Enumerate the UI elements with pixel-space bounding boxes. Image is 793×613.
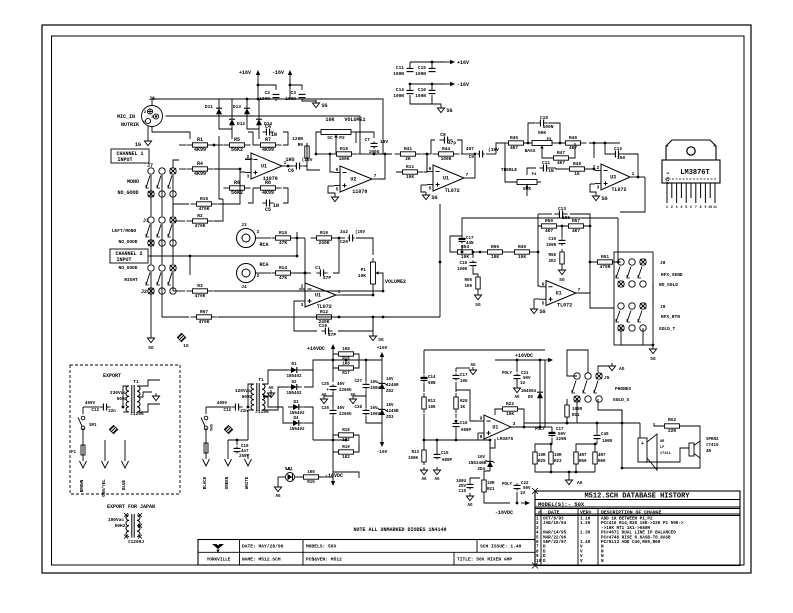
wire (329, 153, 334, 172)
svg-text:+: + (641, 441, 644, 447)
svg-text:11078: 11078 (352, 189, 367, 195)
svg-text:NUTRIK: NUTRIK (121, 122, 139, 128)
switch jack J7 (117, 163, 176, 197)
svg-text:PHONES: PHONES (615, 386, 632, 392)
svg-text:P3: P3 (547, 138, 552, 142)
fuse F1 (204, 428, 208, 456)
svg-text:C16: C16 (418, 87, 426, 93)
svg-text:TL072: TL072 (445, 188, 460, 194)
table frame DB history (535, 491, 740, 566)
wire terminal GREEN (225, 440, 232, 489)
resistor R44 100K (433, 146, 460, 162)
svg-text:C28: C28 (354, 406, 362, 410)
ground SG (328, 186, 339, 202)
wire (643, 328, 654, 346)
svg-text:D1: D1 (291, 363, 297, 367)
label -16VDC (495, 510, 513, 516)
svg-text:TITLE: 50X MIXER AMP: TITLE: 50X MIXER AMP (457, 557, 512, 563)
svg-text:SG: SG (432, 195, 438, 201)
wire (148, 126, 190, 139)
connector J3 RCA (237, 222, 269, 248)
wire (333, 360, 359, 382)
resistor R22 15K (499, 401, 522, 417)
svg-text:SG: SG (148, 345, 154, 351)
capacitor C13 1N5 (554, 206, 570, 221)
table title (584, 493, 690, 501)
svg-text:6: 6 (429, 166, 432, 172)
power +16VDC rail (495, 353, 553, 362)
ground SG (276, 99, 328, 109)
svg-text:GOLD_T: GOLD_T (659, 326, 676, 332)
svg-text:BROWN: BROWN (81, 479, 85, 492)
capacitor C6 (285, 157, 312, 174)
svg-text:TL072: TL072 (611, 187, 626, 193)
svg-text:2: 2 (257, 229, 260, 235)
svg-text:C3: C3 (291, 90, 297, 96)
wire (299, 272, 306, 289)
svg-text:C15: C15 (441, 452, 449, 456)
power +16V (239, 70, 260, 99)
wire (636, 176, 645, 179)
capacitor C1 47P (315, 265, 331, 281)
wire (538, 252, 540, 286)
wire (302, 360, 333, 387)
svg-text:RFX_SEND: RFX_SEND (661, 272, 683, 278)
wire (528, 123, 560, 143)
svg-text:R4: R4 (197, 161, 203, 167)
svg-text:100N: 100N (543, 124, 554, 130)
wire (138, 392, 160, 401)
wire (333, 435, 359, 452)
svg-text:9: 9 (480, 416, 483, 422)
wire (294, 317, 373, 331)
wire (255, 237, 271, 239)
svg-text:5: 5 (685, 205, 687, 209)
capacitor C19 100N (546, 226, 566, 248)
switch jack J5 (572, 373, 632, 403)
wire (372, 287, 375, 296)
wire (545, 426, 552, 428)
wire (248, 384, 253, 410)
resistor R45 4K7 (503, 135, 530, 151)
svg-text:C27: C27 (354, 380, 362, 384)
wire (304, 273, 306, 289)
svg-text:50V: 50V (558, 433, 566, 437)
wire (639, 423, 641, 438)
svg-text:2200U: 2200U (339, 389, 352, 393)
svg-text:C20: C20 (340, 239, 348, 245)
svg-text:TREBLE: TREBLE (501, 167, 518, 173)
svg-text:47K: 47K (279, 240, 287, 246)
svg-text:C12: C12 (223, 409, 231, 413)
svg-text:LD1: LD1 (285, 468, 293, 472)
svg-text:2: 2 (257, 273, 260, 279)
svg-text:N: N (601, 559, 604, 564)
svg-text:D12: D12 (237, 121, 245, 127)
svg-text:100N: 100N (546, 244, 557, 248)
svg-text:1K8: 1K8 (342, 348, 350, 352)
svg-text:+16V: +16V (377, 345, 388, 351)
svg-text:100K: 100K (408, 457, 419, 461)
IC U4 LM3876T pins (666, 183, 717, 209)
svg-text:SG: SG (475, 302, 481, 308)
zener ZD3 (378, 393, 400, 420)
svg-text:NO_GOOD: NO_GOOD (119, 265, 138, 271)
wire (381, 273, 383, 291)
ground AG (433, 467, 440, 482)
svg-text:RIGHT: RIGHT (124, 277, 138, 283)
svg-text:4: 4 (680, 205, 682, 209)
svg-text:220N: 220N (556, 438, 567, 442)
svg-text:SG: SG (559, 277, 565, 283)
wire (173, 199, 223, 221)
svg-text:M512.SCH DATABASE HISTORY: M512.SCH DATABASE HISTORY (584, 493, 690, 501)
capacitor C11 100N (393, 62, 413, 77)
label DATE (242, 544, 284, 550)
svg-text:40V: 40V (337, 383, 345, 387)
diode D11 (205, 104, 222, 118)
capacitor C3 100N (285, 90, 305, 102)
ground AG (469, 364, 476, 375)
resistor R21 10R (482, 471, 495, 494)
svg-text:1K: 1K (574, 171, 580, 177)
wire (150, 312, 152, 335)
capacitor C15 680P (434, 440, 453, 463)
title block frame (198, 540, 535, 566)
svg-text:10K: 10K (406, 174, 414, 180)
svg-text:TL072: TL072 (557, 303, 572, 309)
capacitor C12 150 (611, 146, 625, 161)
svg-text:6: 6 (542, 281, 545, 287)
svg-text:22n: 22n (108, 410, 116, 414)
resistor R9 120R (292, 136, 309, 161)
wire (614, 252, 653, 345)
switch SM1 export (78, 416, 97, 430)
svg-text:VOLUME2: VOLUME2 (385, 279, 406, 285)
svg-text:R60: R60 (598, 460, 606, 464)
svg-text:AG: AG (470, 364, 476, 368)
svg-text:SG: SG (650, 356, 656, 362)
IC U4 LM3876T package (662, 140, 720, 184)
svg-text:4K99: 4K99 (194, 171, 206, 177)
svg-text:100K: 100K (441, 156, 452, 162)
resistor R47 (550, 150, 573, 166)
wire (456, 390, 478, 421)
svg-text:4K99: 4K99 (262, 147, 274, 153)
svg-text:R49: R49 (518, 244, 526, 250)
svg-text:C17: C17 (556, 428, 564, 432)
wire (313, 439, 347, 442)
wire (590, 293, 614, 308)
ground AG (274, 477, 281, 499)
svg-text:1HU: 1HU (285, 157, 294, 163)
svg-text:1K2: 1K2 (342, 456, 350, 460)
resistor R23 10R (549, 449, 562, 467)
svg-text:J7: J7 (147, 163, 153, 169)
svg-text:POLY: POLY (535, 428, 546, 432)
svg-text:RCA: RCA (259, 242, 268, 248)
resistor R8 (255, 180, 282, 196)
capacitor C2 100N (259, 90, 279, 102)
svg-text:8: 8 (480, 434, 483, 440)
transformer T1 japan (108, 513, 145, 545)
wire (151, 224, 173, 264)
wire (296, 232, 298, 256)
svg-text:RCA: RCA (259, 262, 268, 268)
svg-text:2: 2 (671, 205, 673, 209)
svg-text:C14: C14 (428, 376, 436, 380)
svg-text:GOLD_S: GOLD_S (613, 397, 630, 403)
svg-text:60Hz: 60Hz (242, 394, 253, 400)
wire (533, 251, 539, 254)
power +16VDC (307, 344, 335, 360)
svg-text:C22: C22 (521, 482, 529, 486)
svg-text:D2: D2 (291, 381, 297, 385)
power -16V (377, 438, 388, 455)
resistor R20 1K (454, 382, 468, 413)
svg-text:C17: C17 (466, 237, 474, 241)
svg-text:SM1: SM1 (208, 424, 212, 432)
wire terminal GRN/YEL (102, 440, 109, 497)
svg-text:R55: R55 (491, 244, 499, 250)
svg-text:4n7: 4n7 (241, 450, 249, 454)
svg-text:PIN 1: PIN 1 (667, 171, 671, 184)
wire terminal BLACK (203, 456, 210, 489)
svg-text:R25: R25 (538, 460, 546, 464)
svg-text:-16VDC: -16VDC (495, 510, 513, 516)
op-amp U1A (245, 153, 288, 182)
svg-text:16V: 16V (477, 456, 485, 460)
svg-text:10R: 10R (554, 454, 562, 458)
potentiometer P4 TREBLE 50K (501, 167, 537, 192)
svg-text:#: # (538, 510, 541, 516)
svg-text:NAME: M512.SCH: NAME: M512.SCH (242, 557, 281, 563)
svg-text:4K7: 4K7 (557, 160, 565, 166)
potentiometer P3 BASS 50K (525, 130, 552, 154)
wire (620, 177, 645, 212)
svg-text:470K: 470K (195, 223, 206, 229)
svg-text:3: 3 (513, 421, 516, 427)
svg-text:10K: 10K (461, 254, 469, 260)
wire (424, 439, 490, 442)
capacitor C15 100N (415, 62, 435, 77)
svg-text:4K7: 4K7 (510, 145, 518, 151)
svg-text:T1: T1 (133, 379, 139, 385)
wire (138, 404, 160, 412)
wire terminal WHITE (245, 454, 252, 489)
wire (173, 160, 179, 168)
svg-text:160N: 160N (602, 440, 613, 444)
svg-text:16V: 16V (386, 404, 394, 408)
svg-text:ZD2: ZD2 (386, 390, 394, 394)
svg-text:VOLUME1: VOLUME1 (344, 117, 365, 123)
ground AG (263, 387, 275, 398)
wire (294, 237, 305, 240)
wire (524, 142, 565, 145)
capacitor C17 44N (459, 236, 475, 246)
capacitor C22 POLY 1U (502, 482, 531, 504)
svg-text:SM1: SM1 (89, 424, 97, 428)
wire (568, 471, 571, 477)
wire (206, 406, 249, 409)
wire (455, 414, 458, 422)
wire (253, 145, 258, 188)
svg-text:#1209J: #1209J (128, 539, 145, 545)
svg-text:DATE: DATE (548, 510, 560, 516)
svg-text:4K7: 4K7 (572, 228, 580, 234)
svg-text:U3: U3 (610, 175, 616, 181)
ground SG (421, 185, 438, 201)
wire (294, 301, 299, 317)
svg-text:10: 10 (708, 205, 712, 209)
switch SM1 (201, 416, 212, 432)
svg-text:2: 2 (597, 165, 600, 171)
wire (358, 153, 392, 156)
resistor R10 240K (311, 230, 338, 246)
switch jack J2 (119, 265, 177, 295)
zener ZD4 1N5246B (468, 439, 494, 472)
resistor R54 10K (454, 244, 477, 260)
svg-text:1N5402: 1N5402 (289, 412, 305, 416)
diode D1 (286, 363, 302, 379)
svg-text:C16: C16 (460, 422, 468, 426)
wire (255, 272, 271, 274)
svg-text:R16: R16 (200, 196, 208, 202)
power +16V arrow (445, 60, 469, 66)
svg-text:230Vac: 230Vac (110, 390, 127, 396)
svg-text:22R: 22R (668, 428, 676, 434)
resistor R51 470R (594, 254, 617, 270)
svg-text:10R: 10R (538, 454, 546, 458)
wire (496, 143, 505, 154)
capacitor C7 100U (356, 132, 388, 155)
svg-text:C5: C5 (265, 207, 271, 213)
svg-text:400V: 400V (85, 402, 96, 406)
svg-text:J6: J6 (149, 96, 155, 102)
svg-text:C17: C17 (460, 374, 468, 378)
wire (598, 399, 622, 468)
ground 1G (135, 138, 152, 148)
svg-text:R47: R47 (557, 150, 565, 156)
svg-text:180K: 180K (339, 156, 350, 162)
wire (263, 387, 288, 410)
svg-text:C14: C14 (396, 87, 404, 93)
svg-text:R18: R18 (342, 429, 350, 433)
svg-text:240K: 240K (319, 240, 330, 246)
wire (166, 116, 361, 154)
svg-text:1N5: 1N5 (562, 215, 570, 221)
ground SG (474, 292, 481, 308)
svg-text:R5: R5 (234, 137, 240, 143)
wire (152, 99, 383, 154)
wire (213, 144, 223, 147)
label note (353, 527, 446, 533)
svg-text:6: 6 (690, 205, 692, 209)
wire (590, 183, 595, 185)
svg-text:R45: R45 (510, 135, 518, 141)
svg-text:470K: 470K (199, 206, 210, 212)
wire (331, 237, 345, 240)
ground AG (565, 477, 582, 486)
svg-text:2u2: 2u2 (340, 229, 348, 235)
svg-text:100U: 100U (370, 413, 381, 417)
svg-text:56K2: 56K2 (231, 147, 243, 153)
wire (315, 153, 330, 156)
resistor R12 10K (422, 383, 436, 413)
resistor R58 2K2 (548, 249, 564, 267)
wire (644, 448, 689, 462)
wire (544, 360, 546, 427)
svg-text:SG: SG (602, 196, 608, 202)
wire (534, 298, 540, 300)
svg-text:AG: AG (467, 504, 473, 508)
capacitor C21 POLY 1U (502, 359, 531, 386)
svg-text:U1: U1 (443, 176, 449, 182)
resistor R14 47K (272, 265, 295, 281)
resistor R25 10R (533, 449, 546, 467)
wire (173, 290, 384, 293)
svg-text:NO_GOLD: NO_GOLD (659, 282, 678, 288)
svg-text:C10: C10 (241, 445, 249, 449)
wire (307, 166, 320, 170)
svg-text:470R: 470R (600, 264, 611, 270)
border inner frame (52, 36, 745, 565)
svg-text:D13: D13 (233, 104, 241, 110)
svg-text:10U: 10U (460, 380, 468, 384)
svg-text:-16V: -16V (377, 449, 388, 455)
svg-text:16V: 16V (380, 139, 388, 145)
svg-text:R11: R11 (572, 414, 580, 418)
svg-text:AG: AG (421, 478, 427, 482)
wire (333, 472, 359, 478)
table header (538, 510, 662, 516)
wire (378, 153, 386, 179)
wire (296, 476, 333, 478)
svg-text:JAN/10/94: JAN/10/94 (543, 521, 567, 526)
wire (439, 204, 442, 317)
svg-text:100U: 100U (370, 387, 381, 391)
resistor R1 (187, 137, 214, 153)
wire (566, 399, 569, 424)
svg-text:3: 3 (247, 174, 250, 180)
label CHANNEL 1 INPUT box (111, 149, 149, 163)
wire (206, 407, 248, 440)
wire (333, 354, 359, 368)
wire (410, 95, 441, 107)
svg-text:7: 7 (374, 173, 377, 179)
wire (542, 143, 575, 158)
svg-text:R23: R23 (554, 460, 562, 464)
wire (332, 359, 382, 362)
wire (567, 350, 588, 376)
speaker SPKR2 (689, 438, 719, 458)
svg-text:3: 3 (597, 185, 600, 191)
svg-text:+: + (326, 388, 329, 393)
wire (83, 406, 124, 409)
svg-text:R20: R20 (460, 400, 468, 404)
svg-text:1K8: 1K8 (342, 363, 350, 367)
svg-text:GRN/YEL: GRN/YEL (102, 479, 107, 497)
svg-text:YORKVILLE: YORKVILLE (207, 558, 231, 563)
resistor R49 10K (511, 244, 534, 260)
wire (423, 350, 425, 374)
resistor RS2 22R (661, 417, 684, 434)
svg-text:C6: C6 (288, 168, 294, 174)
capacitor C19 47P (319, 323, 336, 338)
wire (219, 136, 223, 199)
svg-text:C25: C25 (321, 383, 329, 387)
svg-text:5: 5 (429, 186, 432, 192)
